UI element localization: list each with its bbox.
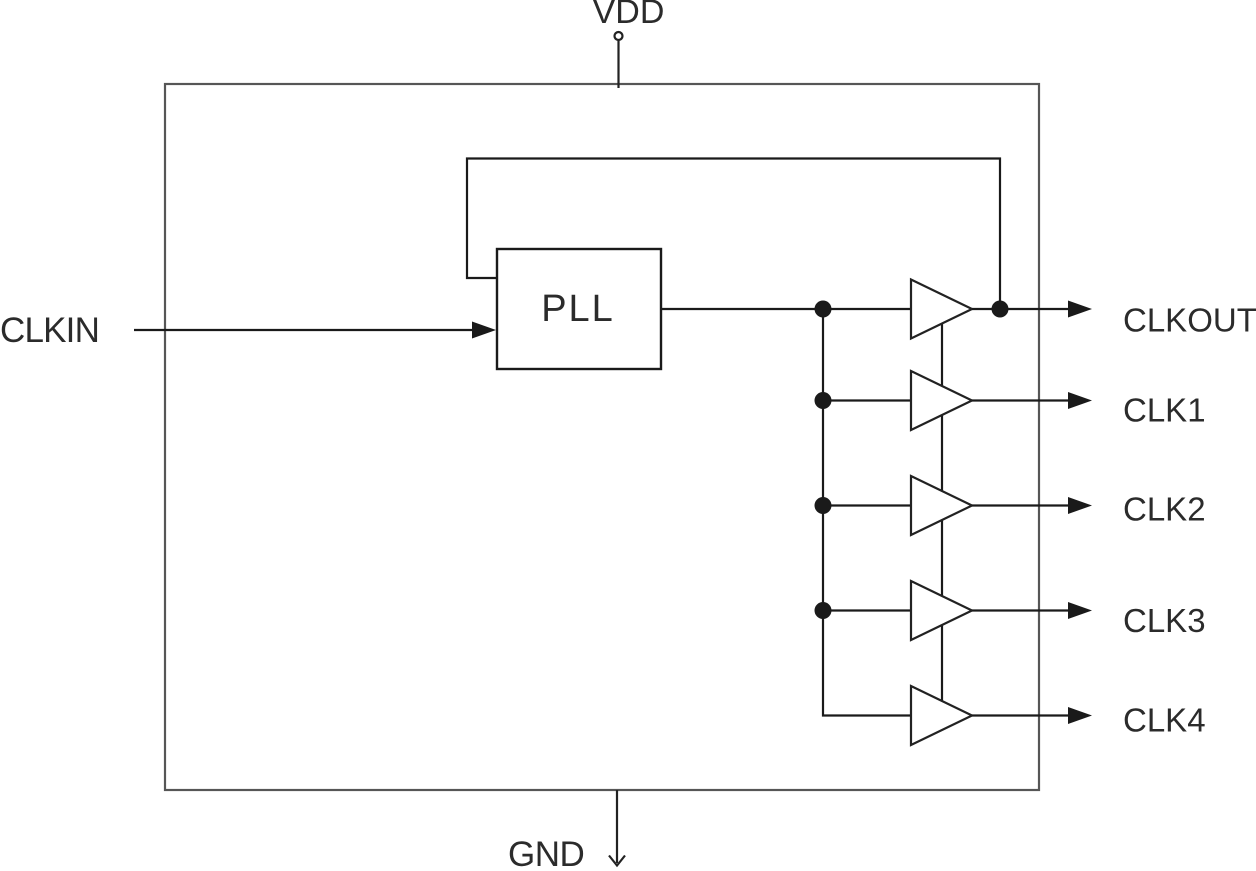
- svg-text:CLKOUT: CLKOUT: [1123, 301, 1256, 338]
- wire CLKOUT output: [972, 308, 1070, 310]
- VDD pin terminal circle: [615, 32, 623, 40]
- wire chaining buffers vertically: [941, 309, 943, 716]
- svg-text:GND: GND: [508, 835, 584, 871]
- wire CLK2 output: [972, 504, 1070, 506]
- svg-text:CLK2: CLK2: [1123, 491, 1206, 528]
- wire branch to buffer 4: [823, 609, 911, 611]
- wire CLKIN input: [134, 329, 476, 331]
- wire branch to buffer 2: [823, 399, 911, 401]
- chip boundary box: [165, 84, 1039, 790]
- svg-text:PLL: PLL: [541, 288, 615, 330]
- node output junction dot: [992, 301, 1009, 318]
- arrowhead CLK4: [1068, 707, 1092, 724]
- svg-text:CLK3: CLK3: [1123, 602, 1206, 639]
- feedback wire from output node to PLL: [467, 159, 1000, 305]
- svg-text:VDD: VDD: [593, 0, 665, 31]
- buffer U5 (CLK3): [911, 581, 972, 640]
- buffer U2 (CLKOUT): [911, 280, 972, 339]
- wire CLK1 output: [972, 399, 1070, 401]
- node junction dot bus/buffer4: [815, 602, 832, 619]
- ground open arrowhead: [609, 856, 625, 866]
- buffer U4 (CLK2): [911, 476, 972, 535]
- arrowhead CLK3: [1068, 602, 1092, 619]
- node junction dot bus/buffer2: [815, 392, 832, 409]
- arrowhead into PLL: [472, 322, 496, 339]
- wire input bus vertical: [823, 309, 911, 716]
- wire CLK3 output: [972, 609, 1070, 611]
- svg-text:CLKIN: CLKIN: [0, 311, 99, 350]
- node junction dot bus/buffer3: [815, 497, 832, 514]
- svg-text:CLK4: CLK4: [1123, 702, 1206, 739]
- arrowhead CLK2: [1068, 497, 1092, 514]
- arrowhead CLKOUT: [1068, 301, 1092, 318]
- svg-text:CLK1: CLK1: [1123, 391, 1206, 428]
- wire branch to buffer 3: [823, 504, 911, 506]
- buffer U6 (CLK4): [911, 686, 972, 745]
- PLL block U1: [497, 249, 661, 369]
- wire VDD to box: [617, 41, 619, 89]
- wire box to GND: [616, 790, 618, 863]
- buffer U3 (CLK1): [911, 371, 972, 430]
- wire CLK4 output: [972, 714, 1070, 716]
- node junction dot bus/buffer1: [815, 301, 832, 318]
- wire PLL output to buffer 1 input: [661, 308, 911, 310]
- arrowhead CLK1: [1068, 392, 1092, 409]
